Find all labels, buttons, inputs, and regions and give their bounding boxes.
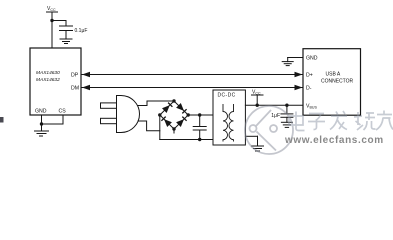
svg-text:MAX14632: MAX14632 [36, 77, 60, 83]
svg-text:CONNECTOR: CONNECTOR [321, 79, 354, 85]
svg-text:0.1μF: 0.1μF [75, 28, 88, 34]
svg-text:GND: GND [35, 109, 47, 115]
svg-text:USB A: USB A [326, 72, 341, 78]
svg-text:D+: D+ [306, 73, 313, 79]
svg-text:CS: CS [59, 109, 67, 115]
svg-text:www.elecfans.com: www.elecfans.com [284, 135, 384, 146]
svg-text:D-: D- [306, 86, 312, 92]
svg-text:GND: GND [306, 56, 318, 62]
svg-text:DC-DC: DC-DC [218, 93, 236, 99]
svg-text:1μF: 1μF [271, 113, 280, 119]
svg-text:DP: DP [71, 73, 79, 79]
svg-text:DM: DM [71, 86, 79, 92]
svg-text:MAX14630: MAX14630 [36, 70, 60, 76]
